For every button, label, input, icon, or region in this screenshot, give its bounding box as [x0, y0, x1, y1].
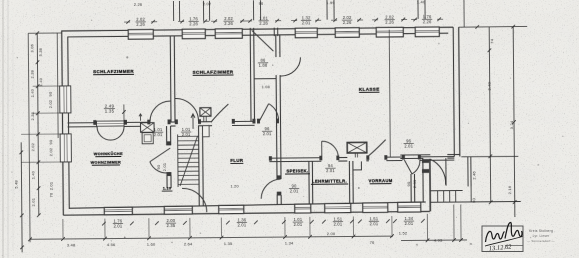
- svg-text:4.56: 4.56: [107, 242, 116, 247]
- svg-text:2.01: 2.01: [49, 182, 54, 190]
- svg-text:Lyr. Lieser: Lyr. Lieser: [533, 234, 551, 238]
- window bottom wall: [398, 202, 421, 212]
- rear corridor wall: [422, 159, 424, 203]
- cut-off extension lines from upper storey: [172, 1, 174, 21]
- top dimension 2.02: [384, 14, 394, 24]
- bottom dim 1.36: [237, 217, 247, 227]
- entrance door head line: [250, 28, 277, 30]
- kitchen door leaf and arc: [150, 148, 171, 162]
- vestibule bottom door leaf and arc: [259, 104, 268, 121]
- svg-text:2.01: 2.01: [293, 222, 302, 227]
- window left wall upper: [60, 86, 71, 113]
- svg-text:2.46: 2.46: [471, 171, 476, 180]
- svg-text:— Simmersdorf —: — Simmersdorf —: [527, 239, 555, 243]
- porch step: [449, 191, 451, 202]
- stairwell right wall: [198, 125, 201, 206]
- left dimension line x38: [37, 33, 39, 215]
- svg-text:50: 50: [471, 197, 476, 202]
- window top wall: [182, 29, 205, 39]
- door arc bedroom2: [175, 98, 198, 121]
- top dimension 1.76: [422, 14, 432, 24]
- svg-text:2.02: 2.02: [30, 143, 35, 151]
- svg-text:SCHLAFZIMMER: SCHLAFZIMMER: [93, 69, 134, 74]
- door arc bedroom1: [150, 101, 171, 122]
- svg-text:FLUR: FLUR: [230, 158, 244, 163]
- svg-text:2.16: 2.16: [507, 185, 512, 194]
- svg-text:5.48: 5.48: [14, 180, 19, 189]
- extension line x58: [56, 33, 59, 138]
- dimension label: [153, 127, 163, 137]
- svg-text:2.01: 2.01: [290, 189, 299, 194]
- small arrow room1: [139, 114, 142, 121]
- window top wall: [376, 27, 403, 37]
- svg-text:2.01: 2.01: [326, 168, 335, 173]
- flue pipe: [203, 116, 205, 121]
- right dimension line x514: [513, 27, 515, 217]
- stove pipe box: [353, 161, 362, 170]
- flue pipe: [354, 153, 356, 157]
- chimney C1 with X: [200, 108, 211, 117]
- bottom dim 1.76: [113, 218, 123, 228]
- bottom dim 1.51: [333, 216, 343, 226]
- hall-pantry door arc: [261, 179, 281, 199]
- interior wall: bedroom divider x~172: [169, 36, 172, 122]
- bottom dim 1.51: [369, 216, 379, 226]
- light partition line in classroom: [389, 30, 390, 157]
- window bottom wall: [164, 206, 192, 214]
- room label: SCHLAFZIMMER: [193, 69, 234, 75]
- left extension lines: [28, 33, 30, 242]
- room label: KLASSE: [359, 87, 380, 93]
- svg-text:3.48: 3.48: [67, 242, 76, 247]
- svg-text:2.40: 2.40: [487, 81, 492, 90]
- bottom dimension chain: [30, 236, 393, 239]
- svg-text:WOHNZIMMER: WOHNZIMMER: [91, 160, 122, 164]
- dimension label: [404, 138, 414, 148]
- outer wall: bottom, double line (sloped): [63, 211, 429, 215]
- svg-text:1.35: 1.35: [224, 241, 233, 246]
- room label: VORRAUM: [368, 178, 392, 184]
- svg-text:2.01: 2.01: [412, 179, 417, 188]
- svg-text:SPEISEK.: SPEISEK.: [286, 168, 308, 173]
- scan streaks: [7, 0, 9, 258]
- svg-text:≈: ≈: [470, 241, 473, 246]
- svg-text:76: 76: [370, 240, 375, 245]
- svg-text:2.01: 2.01: [154, 132, 163, 137]
- interior middle wall y~121-125: [68, 122, 97, 124]
- small label: 1.20: [162, 187, 173, 192]
- svg-text:2.02: 2.02: [48, 147, 53, 156]
- svg-text:1.99: 1.99: [326, 0, 335, 5]
- svg-text:WOHNKÜCHE: WOHNKÜCHE: [94, 151, 123, 156]
- porch door leaf+arc: [445, 158, 447, 185]
- svg-text:1.52: 1.52: [399, 230, 408, 235]
- dimension label: [262, 126, 272, 136]
- window bottom wall: [104, 207, 132, 214]
- entrance door leaf: [252, 30, 274, 51]
- scan edge: [2, 0, 4, 258]
- double doorway threshold box: [97, 121, 125, 126]
- window bottom wall: [295, 204, 311, 213]
- svg-text:SCHLAFZIMMER: SCHLAFZIMMER: [193, 69, 234, 74]
- svg-text:KLASSE: KLASSE: [359, 87, 380, 92]
- svg-text:2.26: 2.26: [385, 20, 394, 25]
- extension line from above at x465: [463, 0, 465, 27]
- room label: SCHLAFZIMMER: [93, 69, 134, 75]
- svg-text:2.38: 2.38: [30, 70, 35, 78]
- kitchen stove stack with X: [141, 123, 155, 133]
- svg-text:2.64: 2.64: [184, 241, 193, 246]
- outer wall: right: [453, 27, 454, 156]
- outer wall: left: [62, 31, 64, 215]
- window left wall lower: [60, 134, 71, 162]
- svg-text:1.88: 1.88: [259, 63, 268, 68]
- stair walk line: [180, 136, 198, 186]
- svg-text:2.26: 2.26: [423, 19, 432, 24]
- window top wall: [335, 28, 359, 38]
- dimension label: [325, 163, 335, 173]
- stairwell left wall with door: [166, 126, 168, 145]
- top dimension 2.02: [342, 15, 352, 25]
- right dimension line x490: [489, 27, 491, 202]
- svg-text:2.26: 2.26: [134, 2, 143, 7]
- door leaf curve near chimney: [211, 104, 229, 122]
- dimension label: [258, 58, 268, 68]
- svg-text:2.02: 2.02: [203, 1, 212, 6]
- window top wall: [295, 28, 317, 38]
- stairwell bottom door arc: [182, 188, 207, 212]
- porch step: [455, 191, 457, 202]
- extension verticals to bottom chain: [62, 219, 64, 238]
- window bottom wall: [325, 203, 351, 212]
- svg-text:2.01: 2.01: [162, 162, 167, 171]
- window top wall: [215, 29, 242, 39]
- door jamb blocks: [257, 119, 260, 123]
- porch side wall: [467, 156, 469, 186]
- svg-text:2.01: 2.01: [31, 198, 36, 206]
- svg-text:LEHRMITTELR.: LEHRMITTELR.: [312, 179, 347, 184]
- dimension label: [289, 183, 299, 193]
- top dimension 1.76: [188, 16, 198, 26]
- dimension label: [181, 127, 191, 137]
- dimension label: [104, 103, 115, 113]
- svg-text:2.01: 2.01: [369, 221, 378, 226]
- window bottom wall: [363, 203, 388, 213]
- svg-text:2.26: 2.26: [136, 22, 145, 27]
- svg-text:2.01: 2.01: [404, 221, 413, 226]
- top dimension 1.01: [258, 16, 268, 26]
- svg-text:90: 90: [48, 139, 53, 144]
- top dimension 2.02: [223, 16, 233, 26]
- classroom door arc x321-338: [322, 141, 339, 158]
- svg-text:2.35: 2.35: [166, 223, 175, 228]
- signature box: [482, 226, 523, 252]
- bottom dim 1.34: [404, 216, 414, 226]
- svg-text:3.06: 3.06: [29, 44, 34, 52]
- svg-text:2.01: 2.01: [113, 224, 122, 229]
- svg-text:2.01: 2.01: [263, 131, 272, 136]
- svg-text:1.40: 1.40: [38, 77, 43, 86]
- svg-text:4.93: 4.93: [434, 238, 443, 243]
- window top wall: [415, 27, 439, 37]
- top extension to right: [459, 26, 527, 29]
- svg-text:1.40: 1.40: [417, 0, 426, 4]
- signature handwriting: [486, 231, 505, 242]
- extension line bottom-right: [431, 200, 521, 203]
- svg-text:5.36: 5.36: [38, 48, 43, 56]
- pantry/storeroom divider walls: [308, 161, 310, 204]
- svg-text:90: 90: [406, 181, 411, 186]
- svg-text:1.08: 1.08: [261, 84, 269, 89]
- outer wall: top, double line: [61, 27, 453, 31]
- svg-text:2.26: 2.26: [259, 21, 268, 26]
- svg-text:96: 96: [259, 1, 264, 6]
- svg-text:2.26: 2.26: [224, 21, 233, 26]
- bottom dim 2.00: [166, 218, 176, 228]
- svg-text:2.02: 2.02: [48, 99, 53, 108]
- svg-text:2.01: 2.01: [182, 132, 191, 137]
- svg-text:1.35: 1.35: [105, 109, 115, 114]
- svg-text:2.01: 2.01: [302, 20, 311, 25]
- svg-text:2.01: 2.01: [404, 144, 413, 149]
- svg-text:2.00: 2.00: [327, 231, 336, 236]
- room label: SPEISEK.: [285, 168, 310, 174]
- svg-text:2.01: 2.01: [333, 222, 342, 227]
- svg-text:3.24: 3.24: [509, 120, 514, 129]
- room label: FLUR: [230, 158, 244, 164]
- svg-text:VORRAUM: VORRAUM: [368, 178, 392, 183]
- svg-text:1.40: 1.40: [30, 88, 35, 97]
- vestibule right / hall right wall: [275, 35, 277, 57]
- chimney C2 with X: [347, 142, 367, 153]
- top dimension 1.32: [301, 15, 311, 25]
- top dimension 2.02: [135, 17, 145, 27]
- far-left dimension line x21: [20, 142, 23, 252]
- top-left extension line: [28, 32, 61, 34]
- svg-text:2.26: 2.26: [189, 21, 198, 26]
- stair arrow: [191, 114, 195, 129]
- right dimension line x470 lower: [470, 186, 472, 202]
- flue box below chimney: [203, 126, 210, 137]
- porch step: [437, 191, 439, 202]
- svg-text:1.40: 1.40: [30, 170, 35, 179]
- window bottom wall: [219, 205, 244, 213]
- svg-text:1.34: 1.34: [285, 240, 294, 245]
- svg-text:1.20: 1.20: [163, 187, 171, 191]
- porch steps: [431, 189, 463, 191]
- room label: LEHRMITTELR.: [311, 178, 348, 184]
- porch step: [443, 191, 445, 202]
- room label: WOHNZIMMER: [91, 160, 122, 165]
- vestibule left wall: [249, 35, 252, 121]
- svg-text:76: 76: [49, 192, 54, 197]
- double door arcs below (kitchen side): [97, 127, 111, 141]
- svg-text:1.60: 1.60: [147, 242, 156, 247]
- room label: WOHNKÜCHE: [94, 151, 123, 157]
- svg-text:1.20: 1.20: [230, 183, 239, 188]
- svg-text:74: 74: [489, 38, 494, 43]
- svg-text:2.26: 2.26: [343, 20, 352, 25]
- porch wall segments: [400, 154, 430, 156]
- vestibule threshold line: [254, 78, 276, 80]
- svg-text:2.01: 2.01: [237, 222, 246, 227]
- stair: [178, 134, 199, 187]
- svg-text:90: 90: [156, 164, 161, 169]
- svg-text:Kreis Stolberg: Kreis Stolberg: [529, 229, 553, 233]
- door leaf curve x368-386: [367, 140, 386, 157]
- window top wall: [128, 29, 153, 39]
- door to rear corridor: leaf and arc: [404, 160, 412, 174]
- classroom bottom wall y~158-161.5: [269, 157, 321, 159]
- bottom-right sub chain: [401, 239, 467, 242]
- scan dust: [358, 187, 360, 189]
- door arc vestibule to classroom: [280, 57, 300, 76]
- svg-text:90: 90: [48, 91, 53, 96]
- bottom dim 1.01: [293, 217, 303, 227]
- entrance door opening jambs: [249, 28, 251, 36]
- right-side extension line y158: [461, 155, 518, 157]
